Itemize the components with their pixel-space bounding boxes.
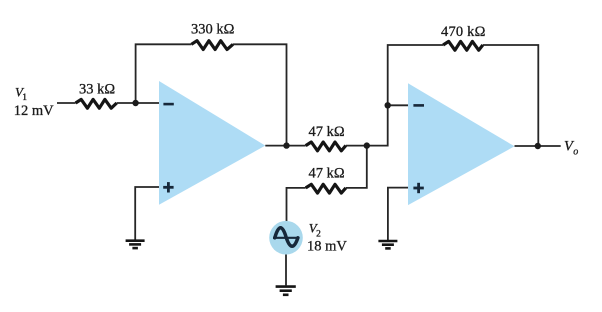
svg-text:18 mV: 18 mV <box>307 239 347 255</box>
svg-text:33 kΩ: 33 kΩ <box>79 82 115 98</box>
svg-text:o: o <box>573 147 578 158</box>
svg-text:12 mV: 12 mV <box>14 103 54 119</box>
svg-text:330 kΩ: 330 kΩ <box>191 22 235 38</box>
svg-text:47 kΩ: 47 kΩ <box>309 166 345 182</box>
svg-text:47 kΩ: 47 kΩ <box>309 124 345 140</box>
svg-text:470 kΩ: 470 kΩ <box>441 24 486 40</box>
svg-text:1: 1 <box>22 93 27 103</box>
